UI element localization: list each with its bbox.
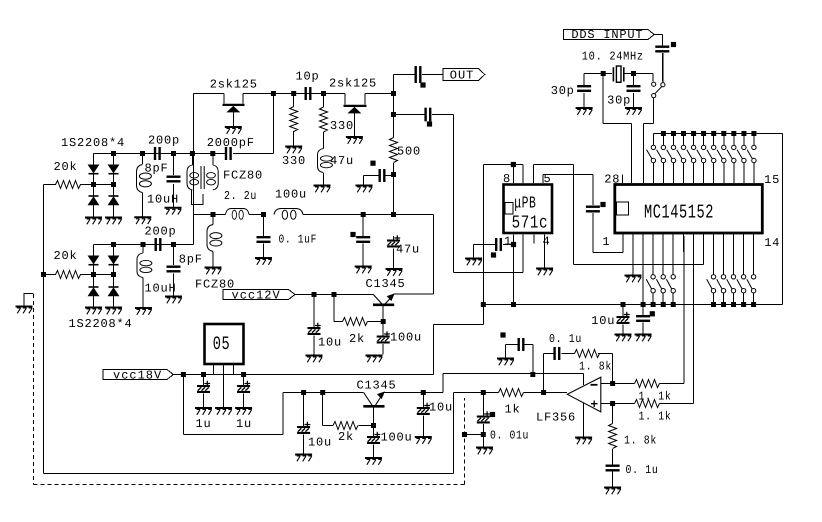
wire lf input net — [454, 393, 484, 474]
node c2 2k — [320, 390, 325, 395]
node tank1 left — [140, 151, 145, 156]
capacitor 200p tank1 — [154, 147, 161, 160]
flag vcc18V — [103, 370, 173, 380]
ground quad1 left — [85, 218, 102, 225]
svg-text:2sk125: 2sk125 — [329, 77, 377, 91]
label 10u rail — [591, 314, 615, 328]
inductor 100u — [274, 209, 303, 220]
node vco 47u-cap — [391, 212, 396, 217]
wire c1345-1 base — [382, 306, 384, 355]
wire FET1 top — [193, 94, 345, 127]
marker upb pin1 cap — [491, 252, 496, 257]
resistor 20k lower — [56, 271, 81, 279]
node xtal right — [631, 71, 636, 76]
wire vertical feedback left rail — [44, 185, 454, 474]
wire quad2 diode col1 — [93, 266, 95, 308]
svg-text:10u: 10u — [429, 401, 453, 415]
marker rail bypass — [650, 311, 655, 316]
switch N-counter top col8 — [717, 131, 726, 183]
marker out cap2 — [427, 121, 432, 126]
switch N-counter top col11 — [747, 131, 756, 183]
capacitor tank1 10uH-cap — [167, 176, 181, 183]
pin 28 stub — [621, 175, 623, 184]
label 1S2208*4 upper — [61, 136, 125, 150]
svg-text:200p: 200p — [145, 225, 177, 239]
label C1345 no.2 — [357, 379, 397, 393]
capacitor 1u no.2 — [237, 381, 250, 393]
switch R-divider col5 — [747, 233, 756, 307]
marker cap500 — [370, 161, 375, 166]
capacitor 10u no.2b — [417, 403, 430, 415]
capacitor 47u electrolytic — [387, 235, 400, 247]
inductor 10uH-coil tank2 — [137, 253, 152, 278]
svg-text:2. 2u: 2. 2u — [224, 189, 257, 203]
wire 20k row2 — [44, 274, 114, 276]
node vcc12 10u — [312, 292, 317, 297]
switch N-counter top col1 — [647, 134, 656, 184]
switch N-counter top col6 — [697, 131, 706, 183]
wire 47u-cap column — [393, 236, 395, 268]
uPB571c pin1 notch — [505, 203, 513, 215]
label 100u no.2 — [381, 431, 413, 445]
diode 1S2208 quad1 bottom-left — [89, 196, 99, 205]
ground mc pin2 — [625, 233, 642, 282]
wire 330-2 47u — [323, 94, 325, 186]
ground upb pin1 cap — [465, 259, 482, 266]
diode 1S2208 quad2 top-left — [89, 256, 99, 265]
svg-text:330: 330 — [282, 154, 306, 168]
switch N-counter top col2 — [657, 131, 666, 183]
label FCZ80 lower — [195, 278, 235, 292]
ground cap500 — [356, 186, 373, 193]
node 10p right — [321, 91, 326, 96]
ground tank1 cap — [165, 208, 182, 215]
node out cap2 tap — [391, 112, 396, 117]
label 0.1u feedback — [549, 332, 582, 346]
svg-text:10uH: 10uH — [145, 282, 177, 296]
wire 1k to opamp — [483, 392, 567, 394]
label 10.24MHz — [582, 50, 644, 64]
capacitor upb pin1 — [495, 238, 502, 251]
label 30p left — [551, 84, 575, 98]
marker pin8 line — [511, 162, 516, 167]
label 20k upper — [54, 160, 78, 174]
label 2sk125 no.2 — [329, 77, 377, 91]
switch A-counter col3 — [666, 233, 675, 307]
svg-text:47u: 47u — [396, 243, 420, 257]
ground opamp vee — [575, 438, 592, 445]
node c2 10u-b — [421, 390, 426, 395]
wire 1u caps — [204, 375, 244, 408]
svg-text:1: 1 — [602, 235, 610, 249]
node tank1 right — [171, 151, 176, 156]
label 571c — [512, 213, 548, 234]
wire upb pin4 — [544, 235, 546, 268]
label vcc12V — [232, 289, 281, 303]
wire opamp minus net — [601, 236, 684, 384]
svg-text:20k: 20k — [54, 249, 78, 263]
wire tank2 — [143, 245, 174, 308]
wire pin9 link — [574, 236, 704, 265]
switch A-counter col1 — [646, 233, 655, 307]
node quad1 top-right — [111, 151, 116, 156]
wire 0.1uF cap — [263, 215, 265, 258]
label LF356 — [536, 411, 576, 425]
svg-text:1u: 1u — [196, 417, 212, 431]
svg-text:4: 4 — [543, 235, 551, 249]
inductor 2.2u — [226, 209, 249, 220]
wire pin8/7 supply line — [483, 165, 523, 325]
MC145152 pin1 notch — [617, 202, 629, 215]
svg-text:10u: 10u — [318, 336, 342, 350]
wire c1345-2 base — [373, 407, 375, 458]
ground upb pin4 — [536, 269, 553, 276]
label 10uH tank1 — [147, 193, 179, 207]
wire 330-1 — [293, 94, 295, 147]
ground 100u no.1 — [366, 356, 383, 363]
wire pin5 line — [543, 175, 593, 253]
label vcc18V — [113, 369, 162, 383]
label 1.1k upper — [639, 390, 672, 404]
wire mc pin7 lead — [682, 233, 684, 252]
label 20k lower — [54, 249, 78, 263]
wire 2k-1 — [334, 295, 383, 322]
wire vco line left — [193, 215, 433, 294]
IC MC145152 box — [615, 185, 763, 234]
node tank2 left — [141, 242, 146, 247]
label MC145152 — [644, 202, 714, 224]
switch spdt dds — [652, 53, 665, 98]
ground quad2 right — [105, 308, 122, 315]
label 10u no.2a — [308, 436, 332, 450]
node 2k-2 base — [371, 423, 376, 428]
svg-text:20k: 20k — [54, 160, 78, 174]
capacitor 10p — [305, 87, 312, 100]
capacitor 10u lf — [477, 411, 490, 423]
transistor 2sk125 no.2 — [344, 106, 367, 113]
wire 30p left — [583, 74, 585, 108]
transistor C1345 no.1 — [373, 294, 394, 305]
ground FET2 — [346, 137, 363, 144]
transformer FCZ80-1 right winding — [207, 165, 219, 190]
wire top rail — [653, 134, 782, 305]
resistor 500 — [390, 138, 398, 163]
capacitor out coupling 1 — [415, 66, 422, 83]
wire 30p right — [633, 74, 635, 108]
label upb pin5 — [544, 172, 552, 186]
switch N-counter top col7 — [707, 131, 716, 183]
label 200p tank1 — [148, 134, 180, 148]
wire mc pin9 lead — [702, 233, 704, 236]
wire tank1 caps — [143, 154, 174, 208]
svg-text:10. 24MHz: 10. 24MHz — [582, 50, 644, 64]
switch N-counter top col5 — [687, 131, 696, 183]
node vcc18 left — [181, 372, 186, 377]
label 47u cap — [396, 243, 420, 257]
label mc pin15 — [764, 173, 780, 187]
svg-text:2k: 2k — [349, 332, 365, 346]
svg-text:0. 1u: 0. 1u — [549, 332, 582, 346]
ground reg mid — [215, 408, 232, 415]
capacitor 0.1u lower — [606, 465, 620, 472]
ground vcc opamp cap — [497, 359, 514, 366]
capacitor 10u rail — [615, 305, 632, 342]
label 1u no.2 — [236, 417, 252, 431]
node lf input — [481, 390, 486, 395]
svg-text:30p: 30p — [607, 94, 631, 108]
label 1.8k feedback — [579, 360, 612, 374]
resistor 20k upper — [56, 181, 81, 189]
wire upb pin1 cap — [474, 245, 514, 258]
svg-text:28: 28 — [604, 173, 620, 187]
node left rail row2 — [41, 272, 46, 277]
svg-text:1k: 1k — [505, 403, 521, 417]
wire 2k-2 — [323, 393, 374, 426]
capacitor 0.1u vco — [356, 236, 370, 243]
flag DDS INPUT — [563, 30, 654, 40]
ground tank2 cap — [165, 297, 182, 304]
svg-text:8pF: 8pF — [179, 253, 203, 267]
node vcc18 1u-1 — [201, 372, 206, 377]
node 500 bottom — [391, 172, 396, 177]
wire upb pin1 — [513, 235, 515, 305]
label uPB — [514, 194, 536, 213]
label 1S2208*4 lower — [69, 317, 133, 331]
node vco fcz2 — [211, 212, 216, 217]
node opamp out — [541, 390, 546, 395]
label 0.1u lower — [626, 463, 659, 477]
label C1345 no.1 — [366, 277, 406, 291]
wire crystal row — [584, 74, 653, 82]
ground 0.1u vco — [355, 267, 372, 274]
label 1.1k lower — [639, 410, 672, 424]
node xtal left — [601, 71, 606, 76]
wire 10u-2b — [422, 393, 424, 437]
ground 1u no.2 — [235, 408, 252, 415]
svg-text:1. 1k: 1. 1k — [639, 410, 672, 424]
flag vcc12V — [223, 290, 295, 300]
transformer FCZ80-1 left winding — [187, 165, 199, 190]
capacitor 100u no.2 — [367, 432, 380, 444]
ground 10u no.2a — [295, 455, 312, 462]
label 1u no.1 — [196, 417, 212, 431]
ground 100u no.2 — [365, 458, 382, 465]
wire dds input — [654, 35, 662, 82]
svg-text:C1345: C1345 — [366, 277, 406, 291]
capacitor 30p left — [577, 85, 591, 92]
svg-text:8: 8 — [503, 172, 511, 186]
wire opamp vee — [583, 403, 585, 436]
wire bottom rail to C1345-2 — [183, 375, 282, 435]
label 10uH tank2 — [145, 282, 177, 296]
transformer FCZ80-2 winding — [207, 225, 222, 252]
wire mc pin1 lead — [622, 233, 624, 253]
capacitor 100u no.1 — [377, 331, 390, 343]
svg-text:10u: 10u — [591, 314, 615, 328]
marker 0.1u vco — [350, 232, 355, 237]
svg-text:500: 500 — [397, 145, 421, 159]
resistor 1k — [499, 389, 524, 397]
node rail vcc feed — [481, 302, 486, 307]
capacitor 2000pF — [225, 147, 232, 160]
ground 47u coil — [314, 186, 331, 193]
label 10u no.2b — [429, 401, 453, 415]
node rail 10u — [621, 302, 626, 307]
label mc pin28 — [604, 173, 620, 187]
wire mc pin3 lead — [641, 233, 646, 307]
svg-text:47u: 47u — [330, 154, 354, 168]
wire vcc12V row — [295, 294, 373, 296]
label 2000pF — [207, 136, 255, 150]
ground 10u no.2b — [415, 437, 432, 444]
wire out cap1 — [394, 74, 443, 76]
transistor C1345 no.2 — [363, 392, 384, 406]
svg-text:C1345: C1345 — [357, 379, 397, 393]
node quad2 mid-right — [111, 272, 116, 277]
wire shield dashed loop — [34, 294, 465, 485]
wire xtal to chip — [603, 74, 654, 184]
svg-text:571c: 571c — [512, 213, 548, 234]
label 200p tank2 — [145, 225, 177, 239]
node quad2 mid-left — [91, 272, 96, 277]
ground 30p left — [576, 108, 593, 115]
ground tank2 coil — [135, 308, 152, 315]
label 05 — [213, 334, 231, 356]
wire pin6 line — [534, 165, 574, 265]
wire out cap2 — [394, 115, 454, 273]
node fet1 drain — [271, 91, 276, 96]
wire quad1 diode col1 — [93, 175, 95, 218]
ground FCZ80-2 — [205, 268, 222, 275]
capacitor 10u no.2a — [297, 422, 310, 434]
ground 0.1uF — [255, 258, 272, 265]
diode 1S2208 quad1 top-right — [109, 165, 119, 174]
resistor 1.8k vertical — [609, 424, 617, 449]
wire 1.8k vertical — [612, 404, 614, 487]
ground 0.01u — [476, 448, 493, 455]
diode 1S2208 quad2 top-right — [109, 256, 119, 265]
node vcc opamp — [530, 372, 535, 377]
diode 1S2208 quad1 top-left — [89, 165, 99, 174]
svg-text:1: 1 — [504, 235, 512, 249]
label 2.2u — [224, 189, 257, 203]
svg-text:10p: 10p — [296, 70, 320, 84]
wire quad1 diode col2 — [113, 154, 115, 218]
node tank2 right — [171, 242, 176, 247]
node rail upb pin1 — [511, 302, 516, 307]
label 10p — [296, 70, 320, 84]
node 0.01u tap — [481, 432, 486, 437]
label upb pin1 — [504, 235, 512, 249]
svg-text:vcc12V: vcc12V — [232, 289, 281, 303]
svg-text:1S2208*4: 1S2208*4 — [69, 317, 133, 331]
svg-text:5: 5 — [544, 172, 552, 186]
svg-text:1u: 1u — [236, 417, 252, 431]
svg-text:0. 1u: 0. 1u — [626, 463, 659, 477]
label 47u coil — [330, 154, 354, 168]
ground 1u no.1 — [195, 408, 212, 415]
wire 500 column — [393, 75, 395, 215]
ground 0.1u lower — [604, 488, 621, 495]
switch R-divider col1 — [707, 233, 716, 307]
label 330 no.1 — [282, 154, 306, 168]
svg-text:1. 8k: 1. 8k — [624, 434, 657, 448]
resistor 330 no.2 — [320, 107, 328, 132]
label 2k no.2 — [338, 430, 354, 444]
capacitor rail bypass — [635, 305, 652, 342]
diode 1S2208 quad2 bottom-left — [89, 287, 99, 296]
resistor 1.8k feedback — [575, 350, 600, 358]
node 2k base — [381, 319, 386, 324]
resistor 1.1k lower — [635, 400, 660, 408]
capacitor 0.1uF — [257, 236, 271, 243]
inductor 8pF-coil tank1 — [137, 165, 152, 193]
wire quad2 top bar — [94, 245, 194, 257]
node quad2 top-right — [111, 242, 116, 247]
svg-text:14: 14 — [764, 236, 780, 250]
capacitor vcc opamp — [518, 338, 525, 351]
crystal 10.24MHz — [613, 66, 623, 82]
capacitor at 500 bottom — [379, 169, 386, 182]
node 330-1 top — [291, 91, 296, 96]
svg-text:0. 1uF: 0. 1uF — [279, 233, 318, 247]
label 30p right — [607, 94, 631, 108]
ground FET1 — [225, 127, 242, 134]
transformer FCZ80-1 core — [201, 166, 204, 189]
switch A-counter col2 — [656, 233, 665, 307]
label 2k no.1 — [349, 332, 365, 346]
wire gate FET1 — [192, 94, 194, 245]
svg-text:1. 8k: 1. 8k — [579, 360, 612, 374]
capacitor 1u no.1 — [197, 381, 210, 393]
svg-text:100u: 100u — [381, 431, 413, 445]
resistor 2k no.2 — [333, 422, 358, 430]
svg-text:10uH: 10uH — [147, 193, 179, 207]
label upb pin4 — [543, 235, 551, 249]
label FCZ80 upper — [223, 169, 263, 183]
wire opamp plus net — [601, 236, 694, 404]
label 0.01u — [490, 429, 529, 443]
label 1.8k vertical — [624, 434, 657, 448]
switch N-counter top col10 — [737, 131, 746, 183]
svg-text:100u: 100u — [275, 188, 307, 202]
switch R-divider col3 — [727, 233, 736, 307]
marker 10u lf — [490, 412, 495, 417]
ground quad2 left — [85, 308, 102, 315]
ground tank1 coil — [134, 217, 151, 224]
wire bottom rail — [483, 304, 782, 306]
node 2000pF left — [210, 151, 215, 156]
regulator 05 box — [205, 324, 244, 364]
label 8pF tank2 — [179, 253, 203, 267]
svg-text:OUT: OUT — [450, 69, 475, 83]
wire pin1 link — [593, 236, 623, 253]
svg-text:2k: 2k — [338, 430, 354, 444]
op-amp LF356 — [567, 377, 601, 412]
svg-text:8pF: 8pF — [145, 162, 169, 176]
label 100u no.1 — [390, 331, 422, 345]
label 2sk125 no.1 — [210, 78, 258, 92]
wire tank1 coil bottom — [142, 193, 144, 217]
svg-text:MC145152: MC145152 — [644, 202, 714, 224]
switch R-divider col2 — [717, 233, 726, 307]
wire mc pin8 lead — [692, 233, 694, 252]
marker upb series cap — [600, 202, 605, 207]
svg-text:μPB: μPB — [514, 194, 536, 213]
node dashed tap — [462, 432, 467, 437]
label 0.1uF — [279, 233, 318, 247]
label 8pF tank1 — [145, 162, 169, 176]
